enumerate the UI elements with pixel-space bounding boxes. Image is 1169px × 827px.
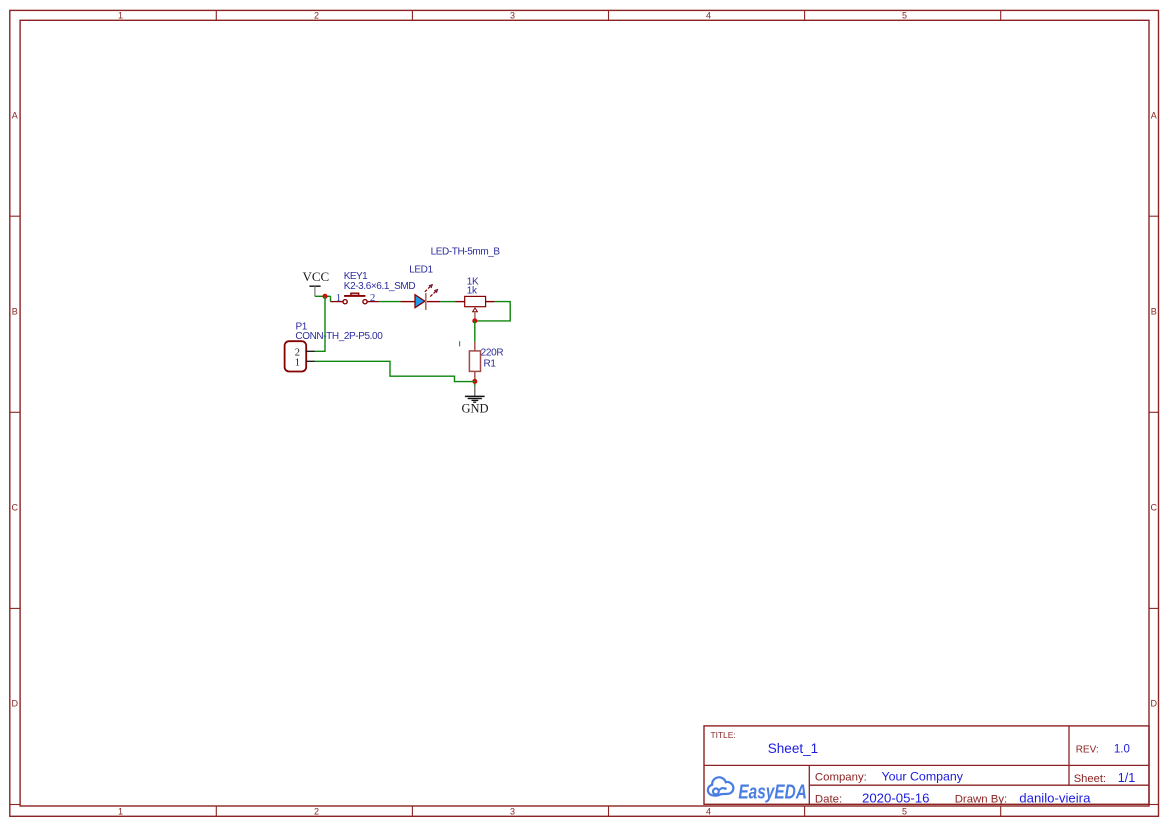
- svg-text:5: 5: [902, 11, 907, 21]
- node junction at GND: [472, 379, 477, 384]
- svg-text:GND: GND: [462, 402, 489, 416]
- svg-text:3: 3: [510, 11, 515, 21]
- ruler column numbers bottom: [118, 807, 907, 817]
- svg-text:C: C: [12, 503, 19, 513]
- svg-text:Company:: Company:: [815, 772, 867, 784]
- title block divider horizontal date row: [809, 784, 1149, 786]
- LED light arrow 2: [430, 291, 436, 297]
- wire pot right terminal loop to wiper junction: [477, 302, 510, 321]
- svg-text:1.0: 1.0: [1114, 744, 1130, 756]
- ruler row letters left: [12, 111, 19, 709]
- svg-text:2: 2: [314, 11, 319, 21]
- wire riser from VCC junction down to P1 pin2: [315, 296, 325, 351]
- wire R1 bottom to GND junction: [474, 381, 476, 386]
- switch KEY1: [331, 292, 379, 304]
- ruler ticks top: [216, 10, 1000, 20]
- svg-text:1: 1: [118, 807, 123, 817]
- svg-text:Sheet:: Sheet:: [1074, 773, 1106, 785]
- wire stub artifact: [459, 341, 461, 346]
- svg-text:2: 2: [370, 292, 376, 304]
- svg-text:4: 4: [706, 11, 711, 21]
- svg-text:Sheet_1: Sheet_1: [768, 741, 818, 756]
- power flag VCC: [303, 269, 330, 297]
- wire KEY1 pin2 to LED1: [379, 301, 401, 303]
- svg-text:1: 1: [336, 292, 342, 304]
- svg-text:LED1: LED1: [409, 264, 433, 275]
- svg-text:Your Company: Your Company: [882, 770, 964, 784]
- LED light arrow 1: [425, 286, 431, 292]
- ruler ticks right: [1149, 216, 1159, 804]
- svg-text:A: A: [12, 111, 18, 121]
- title block divider horizontal main: [704, 764, 1149, 766]
- svg-text:B: B: [1151, 307, 1157, 317]
- ruler row letters right: [1151, 111, 1158, 709]
- potentiometer 1K: [456, 296, 495, 321]
- svg-text:1k: 1k: [467, 285, 478, 296]
- svg-text:Drawn By:: Drawn By:: [955, 793, 1008, 805]
- node junction below wiper: [472, 318, 477, 323]
- svg-text:LED-TH-5mm_B: LED-TH-5mm_B: [431, 247, 501, 258]
- ruler column numbers top: [118, 11, 907, 21]
- svg-text:VCC: VCC: [303, 269, 330, 284]
- svg-text:R1: R1: [484, 358, 497, 369]
- wire LED1 to potentiometer: [440, 301, 455, 303]
- svg-text:CONN-TH_2P-P5.00: CONN-TH_2P-P5.00: [295, 331, 383, 342]
- ruler ticks left: [10, 216, 20, 804]
- svg-text:2020-05-16: 2020-05-16: [862, 790, 929, 805]
- logo EasyEDA: [708, 777, 807, 803]
- svg-text:220R: 220R: [481, 348, 504, 359]
- svg-text:Date:: Date:: [815, 793, 842, 805]
- svg-text:K2-3.6×6.1_SMD: K2-3.6×6.1_SMD: [344, 281, 416, 292]
- wire P1 pin1 run to GND junction: [315, 361, 475, 381]
- wire junction down-step to KEY1 pin1: [330, 296, 332, 301]
- title block outline: [704, 726, 1149, 804]
- title block divider vertical logo cell: [808, 765, 810, 804]
- ruler ticks bottom: [216, 806, 1000, 816]
- svg-text:D: D: [1151, 699, 1158, 709]
- ground GND: [462, 386, 489, 416]
- svg-text:danilo-vieira: danilo-vieira: [1019, 790, 1091, 805]
- resistor R1 220R: [469, 342, 480, 381]
- wire junction down to R1: [474, 321, 476, 342]
- svg-text:REV:: REV:: [1076, 745, 1099, 756]
- svg-text:C: C: [1151, 503, 1158, 513]
- svg-text:EasyEDA: EasyEDA: [738, 782, 807, 804]
- svg-text:3: 3: [510, 807, 515, 817]
- svg-text:B: B: [12, 307, 18, 317]
- wire VCC stem to junction: [315, 295, 331, 297]
- svg-text:D: D: [12, 699, 19, 709]
- connector P1: [285, 341, 315, 371]
- svg-text:5: 5: [902, 807, 907, 817]
- node junction at VCC: [323, 294, 328, 299]
- svg-text:1/1: 1/1: [1118, 771, 1136, 785]
- LED LED1: [401, 284, 441, 310]
- svg-text:1: 1: [295, 358, 300, 369]
- svg-text:TITLE:: TITLE:: [711, 730, 736, 740]
- svg-text:2: 2: [314, 807, 319, 817]
- wiper arrow: [473, 308, 478, 312]
- svg-text:A: A: [1151, 111, 1157, 121]
- svg-text:1: 1: [118, 11, 123, 21]
- title block divider vertical REV column: [1068, 726, 1070, 785]
- svg-text:4: 4: [706, 807, 711, 817]
